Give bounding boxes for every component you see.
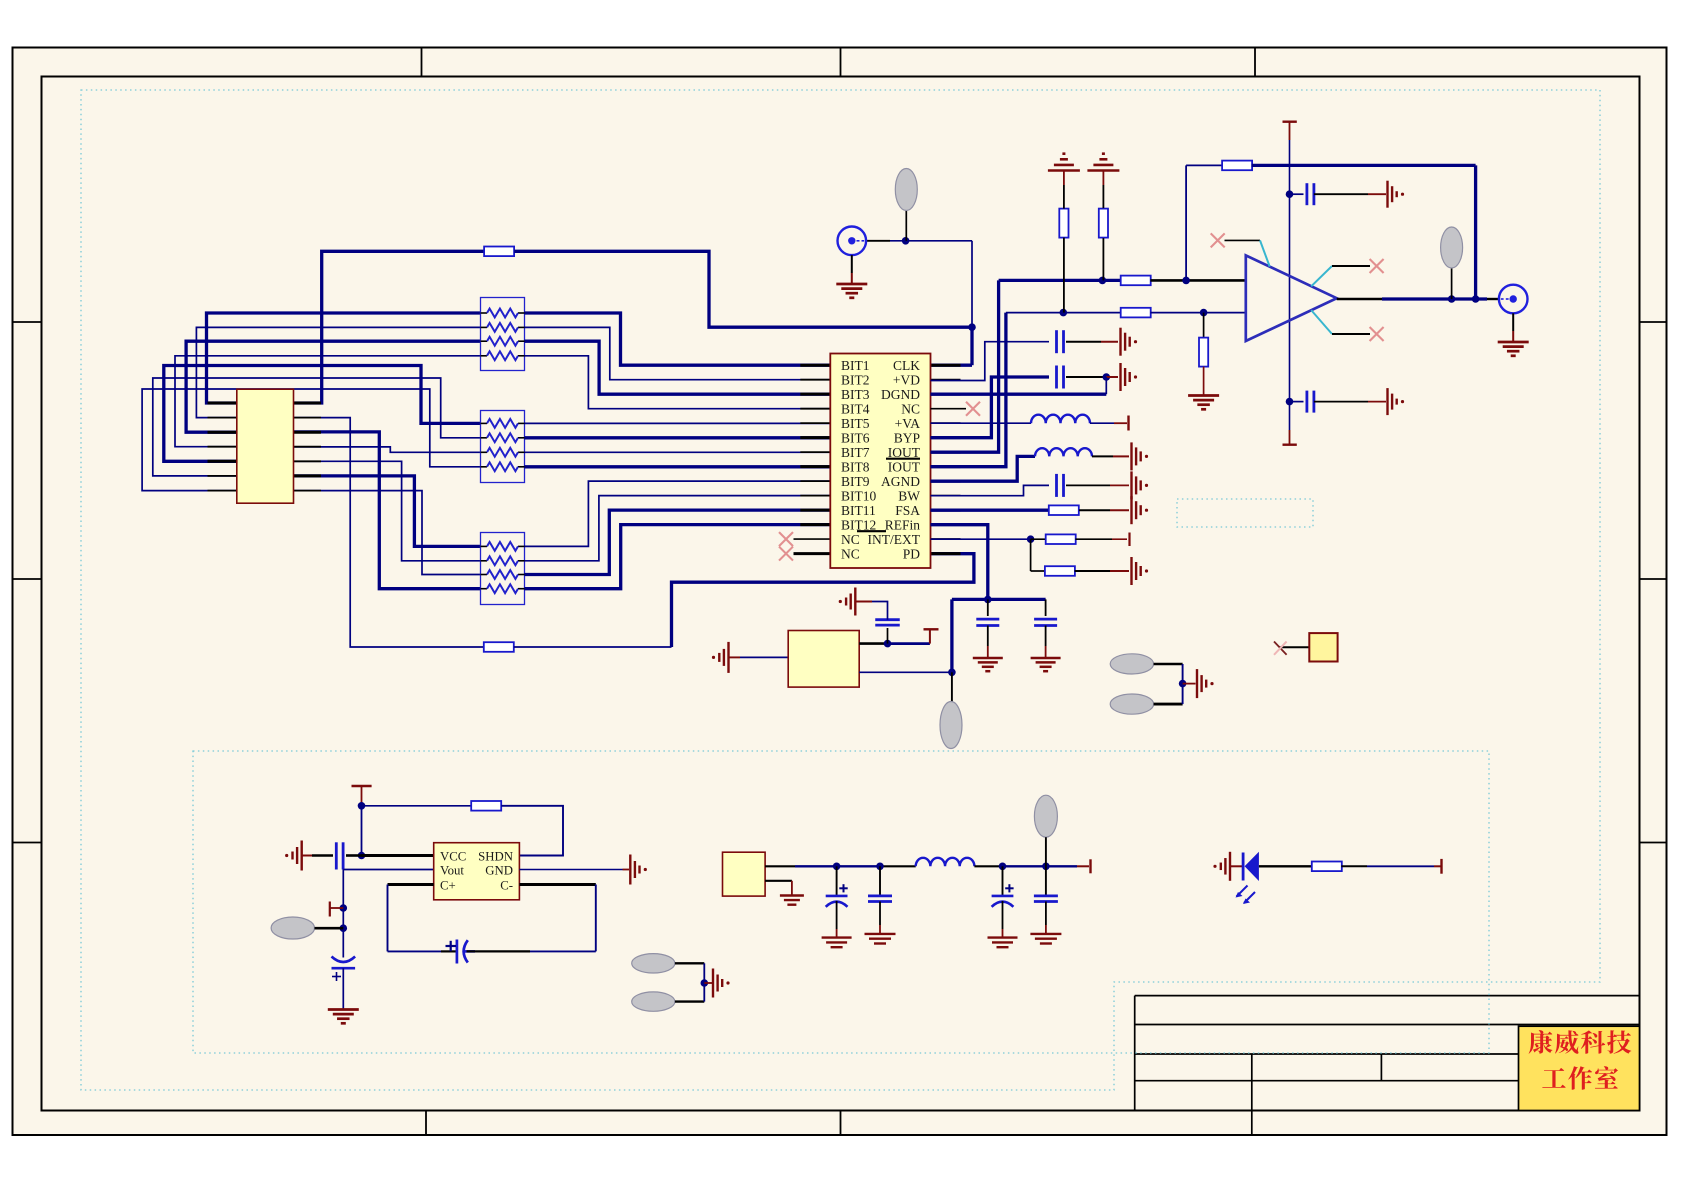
svg-text:BIT8: BIT8	[841, 459, 870, 474]
svg-text:C-: C-	[500, 878, 513, 892]
svg-text:CLK: CLK	[893, 358, 920, 373]
svg-text:NC: NC	[841, 532, 860, 547]
svg-text:BYP: BYP	[894, 430, 920, 445]
svg-text:IOUT: IOUT	[888, 459, 921, 474]
svg-text:BIT7: BIT7	[841, 445, 870, 460]
svg-text:C+: C+	[440, 878, 456, 892]
svg-text:BIT11: BIT11	[841, 503, 876, 518]
svg-text:+VA: +VA	[895, 416, 921, 431]
svg-text:BIT1: BIT1	[841, 358, 870, 373]
svg-text:VCC: VCC	[440, 849, 466, 863]
svg-text:Vout: Vout	[440, 863, 464, 877]
svg-text:BW: BW	[898, 488, 920, 503]
svg-text:SHDN: SHDN	[478, 849, 513, 863]
svg-text:REFin: REFin	[885, 517, 921, 532]
svg-text:AGND: AGND	[881, 474, 920, 489]
svg-text:INT/EXT: INT/EXT	[868, 532, 921, 547]
svg-text:BIT6: BIT6	[841, 430, 870, 445]
svg-text:NC: NC	[901, 401, 920, 416]
svg-text:BIT4: BIT4	[841, 401, 870, 416]
svg-text:+VD: +VD	[893, 372, 920, 387]
svg-text:PD: PD	[903, 546, 921, 561]
svg-text:NC: NC	[841, 546, 860, 561]
svg-text:BIT3: BIT3	[841, 387, 870, 402]
svg-text:BIT9: BIT9	[841, 474, 870, 489]
svg-text:DGND: DGND	[881, 387, 920, 402]
svg-text:BIT2: BIT2	[841, 372, 870, 387]
svg-text:BIT5: BIT5	[841, 416, 870, 431]
svg-text:BIT10: BIT10	[841, 488, 876, 503]
svg-text:GND: GND	[485, 863, 513, 877]
svg-text:FSA: FSA	[895, 503, 920, 518]
